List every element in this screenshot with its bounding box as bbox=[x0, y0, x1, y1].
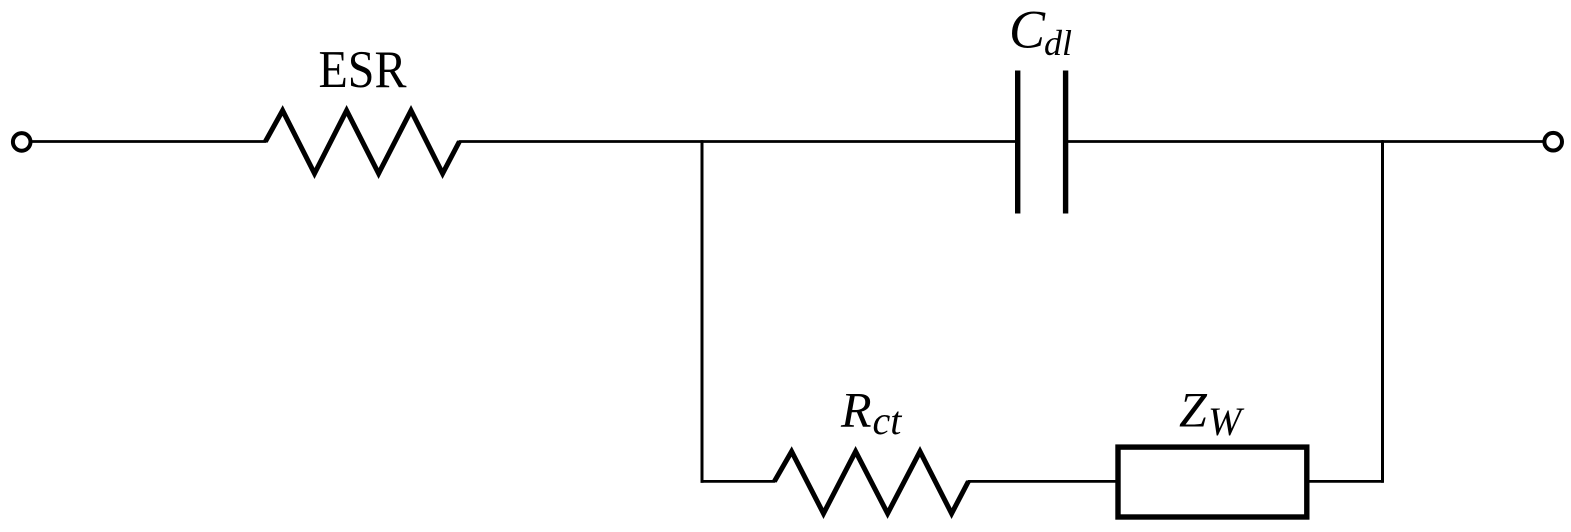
node A (junction of ESR, Cdl branch and Rct branch) bbox=[701, 140, 704, 143]
capacitor Cdl (left plate) bbox=[1015, 71, 1020, 214]
wire: resistor Rct to Warburg ZW bbox=[968, 480, 1118, 483]
wire: bottom left to resistor Rct bbox=[701, 480, 776, 483]
wire: node B to right terminal bbox=[1382, 140, 1544, 143]
svg-text:W: W bbox=[1208, 399, 1245, 444]
wire: node A to capacitor Cdl bbox=[702, 140, 1019, 143]
resistor ESR bbox=[265, 111, 459, 174]
wire: left terminal to ESR bbox=[30, 140, 266, 143]
wire: ESR to node A bbox=[459, 140, 703, 143]
terminal right bbox=[1544, 133, 1562, 151]
wire: node A down (left branch vertical) bbox=[701, 140, 704, 483]
capacitor Cdl (right plate) bbox=[1063, 71, 1068, 214]
svg-text:C: C bbox=[1009, 0, 1046, 60]
svg-text:Z: Z bbox=[1179, 382, 1208, 438]
svg-text:dl: dl bbox=[1044, 23, 1072, 63]
Warburg element ZW (box) bbox=[1118, 447, 1307, 517]
wire: node B down (right branch vertical) bbox=[1381, 140, 1384, 483]
wire: Warburg ZW to node B bbox=[1308, 480, 1384, 483]
wire: capacitor Cdl to node B bbox=[1065, 140, 1383, 143]
resistor Rct bbox=[774, 452, 968, 514]
svg-text:ct: ct bbox=[873, 398, 903, 443]
node B (junction of Cdl branch, ZW branch and right terminal) bbox=[1381, 140, 1384, 143]
svg-text:R: R bbox=[840, 382, 872, 438]
terminal left bbox=[13, 133, 31, 151]
svg-text:ESR: ESR bbox=[319, 41, 408, 99]
